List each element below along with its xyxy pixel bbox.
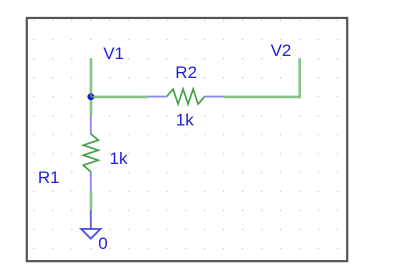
svg-text:0: 0 <box>98 234 107 253</box>
svg-text:V2: V2 <box>271 41 292 60</box>
svg-text:1k: 1k <box>176 110 194 129</box>
svg-text:R1: R1 <box>38 168 60 187</box>
svg-text:1k: 1k <box>110 149 128 168</box>
svg-text:R2: R2 <box>175 63 197 82</box>
svg-text:V1: V1 <box>103 44 124 63</box>
